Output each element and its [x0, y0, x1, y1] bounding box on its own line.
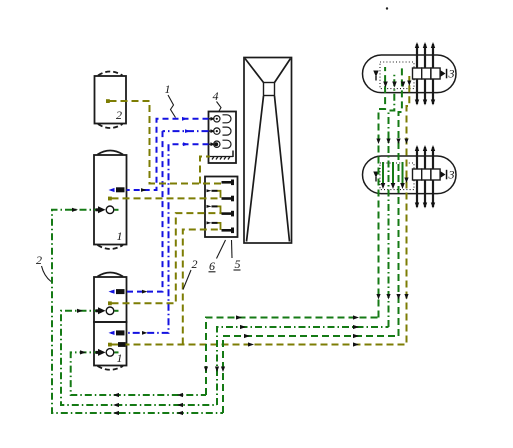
D1 tube arrows	[415, 42, 435, 106]
vessel V2 (small day tank, label 2)	[95, 72, 127, 129]
D1 right arrow and bar	[441, 69, 448, 79]
D2 tube lines	[417, 147, 433, 207]
G2: V1b loop via x61 to drum line x388.5	[61, 74, 394, 405]
svg-text:1: 1	[165, 82, 171, 96]
D2 cell boxes	[413, 169, 441, 180]
V1b blue inlet rect	[116, 289, 125, 294]
olive line O2: V1a to box6 bar2	[112, 197, 222, 199]
box4 row2 igniter	[209, 127, 231, 135]
olive arrow in D1	[407, 81, 411, 87]
blue line L2: burner row2 to V1b	[127, 131, 209, 292]
D1 left nozzle	[373, 71, 378, 81]
D1 green stub arrows	[383, 82, 405, 88]
V1b valve	[96, 307, 119, 315]
box6 bar2	[207, 189, 235, 201]
svg-text:3: 3	[448, 168, 455, 182]
tiny dot	[386, 7, 388, 9]
box4 bottom hatched bar	[210, 151, 233, 160]
V1c valve	[96, 349, 119, 357]
V1a blue inlet rect	[116, 187, 125, 192]
V1b olive square	[108, 301, 112, 305]
D2 tube arrows	[415, 145, 435, 209]
L2 arrow mid	[142, 290, 148, 294]
L1 arrow mid	[141, 188, 147, 192]
D2 stub arrows	[381, 183, 405, 189]
green right arrows into vessel valves	[72, 208, 86, 355]
blue line L1: burner row1 to V1a	[127, 119, 209, 190]
svg-text:2: 2	[36, 253, 42, 267]
box6 bar1	[222, 180, 235, 186]
olive down arrow at y297	[404, 294, 408, 300]
olive line O1: V2 to box4 bottom and box6 bar1	[110, 101, 222, 184]
D2 left nozzle	[373, 172, 378, 182]
green down arrows on right verticals	[204, 367, 225, 373]
L3 arrow mid	[142, 331, 148, 335]
nozzle box 6	[205, 177, 238, 238]
D1 cell boxes	[413, 68, 441, 79]
vessel V1a (middle tall tank, label 1)	[94, 151, 127, 250]
V1a valve	[96, 206, 119, 214]
green stubs in drum D2	[383, 162, 403, 184]
vessel V1b (third tank)	[94, 273, 127, 323]
svg-text:2: 2	[192, 257, 198, 271]
green left arrows on bottom lines	[113, 393, 183, 415]
L1 arrow into box4	[182, 117, 188, 121]
green right arrows on bundle	[236, 315, 359, 338]
burner box 4	[209, 112, 237, 164]
green line G1: V1a loop via x52 bottom to drum line x398.5	[52, 68, 402, 413]
furnace column	[244, 58, 292, 244]
green down arrows at y297	[376, 294, 400, 300]
V1a olive square	[108, 197, 112, 201]
L2 arrow into box4	[185, 129, 191, 133]
olive arrow in D2	[404, 178, 408, 184]
svg-text:5: 5	[235, 257, 241, 271]
svg-text:2: 2	[116, 108, 122, 122]
box4 row3 igniter	[209, 140, 231, 148]
blue line L3: burner row3 to V1c	[127, 144, 209, 333]
svg-text:1: 1	[117, 229, 123, 243]
box4 row1 igniter	[209, 115, 231, 123]
G3: V1c loop via x70.7 to drum line x378.5	[71, 67, 385, 395]
vessel V1c (fourth tank, label 1)	[94, 322, 127, 370]
svg-text:6: 6	[209, 259, 215, 273]
V1c blue inlet rect	[116, 330, 125, 335]
V1b blue inlet arrow	[109, 290, 115, 294]
capsule drum D1 (top right, label 3)	[363, 55, 457, 93]
V2 olive square	[106, 99, 110, 103]
V1c olive square	[108, 343, 112, 347]
svg-text:4: 4	[213, 89, 219, 103]
V1c blue inlet arrow	[109, 331, 115, 335]
green down arrows between drums	[376, 139, 408, 145]
svg-text:3: 3	[448, 67, 455, 81]
olive line O3: V1b to box6 bar3	[112, 213, 222, 303]
V1a blue inlet arrow	[109, 188, 115, 192]
box6 bar3	[207, 205, 235, 217]
D2 right arrow and bar	[441, 170, 448, 180]
D1 tube lines	[417, 44, 433, 104]
L3 arrow into box4	[183, 142, 189, 146]
capsule drum D2 (lower right, label 3)	[363, 156, 457, 194]
olive right arrow on long line	[353, 342, 359, 346]
olive line O4: V1c long line to drums, branch to box6 bar4	[112, 76, 410, 345]
V1c olive rect component	[118, 342, 126, 347]
box6 bar4	[207, 221, 235, 233]
